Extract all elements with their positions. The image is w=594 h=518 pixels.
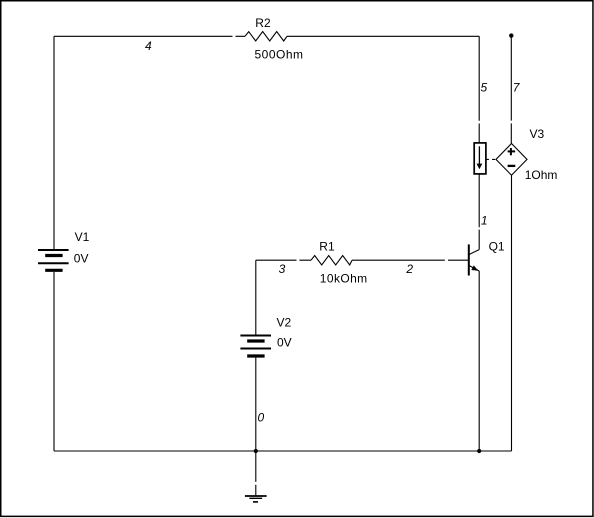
svg-text:5: 5 [481,80,488,94]
junction dot V2/bottom [254,449,258,453]
wire Q1 emitter down to bottom wire [478,271,480,451]
svg-text:0V: 0V [277,335,292,349]
wire left V1 branch upper [53,36,55,249]
current probe box on node 5 wire [474,143,486,174]
svg-text:3: 3 [279,262,286,276]
wire probe to Q1 collector [478,174,480,250]
resistor R1 [311,256,352,265]
V3 left pin stub dashes [486,158,495,160]
wire bottom [54,450,512,452]
svg-text:1Ohm: 1Ohm [525,168,558,182]
svg-text:10kOhm: 10kOhm [320,272,368,286]
wire V3 lower to bottom wire [511,175,513,451]
svg-text:4: 4 [145,39,152,53]
wire node 5 vertical upper [478,36,480,143]
node 7 dangling dot [509,33,513,37]
svg-text:R2: R2 [255,16,271,30]
wire V2 upper [255,260,257,335]
svg-text:1: 1 [481,214,488,228]
svg-text:2: 2 [405,262,413,276]
svg-text:V2: V2 [277,315,292,329]
wire base from node 3 corner to Q1 [256,259,469,261]
ground [245,496,267,502]
wire node 7 vertical upper [510,36,512,144]
svg-text:V1: V1 [75,230,90,244]
svg-text:500Ohm: 500Ohm [255,47,304,61]
battery V1 [38,250,69,270]
dependent source V3 [496,144,527,176]
junction dot emitter/bottom [477,449,481,453]
svg-text:7: 7 [513,80,521,94]
resistor R2 [245,32,287,41]
wire ground stub [255,451,257,495]
svg-text:0: 0 [258,411,265,425]
svg-text:0V: 0V [74,251,89,265]
battery V2 [240,336,271,357]
svg-text:Q1: Q1 [489,239,505,253]
transistor Q1 [469,244,479,275]
svg-text:V3: V3 [530,127,545,141]
wire top from V1 to node 5 branch [54,35,479,37]
wire V2 lower [255,358,257,451]
svg-text:R1: R1 [319,239,335,253]
wire left V1 branch lower [53,272,55,451]
